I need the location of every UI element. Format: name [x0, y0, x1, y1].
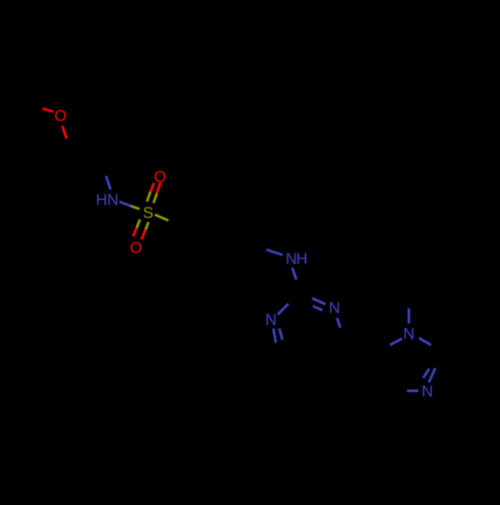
svg-text:O: O [154, 169, 166, 186]
svg-text:N: N [403, 326, 414, 343]
svg-text:O: O [130, 240, 142, 257]
svg-text:N: N [265, 312, 276, 329]
svg-text:H: H [96, 192, 107, 209]
svg-text:H: H [296, 251, 307, 268]
svg-text:S: S [143, 205, 154, 222]
svg-text:N: N [422, 384, 433, 401]
svg-text:N: N [329, 300, 340, 317]
svg-text:O: O [54, 108, 66, 125]
svg-text:N: N [107, 192, 118, 209]
